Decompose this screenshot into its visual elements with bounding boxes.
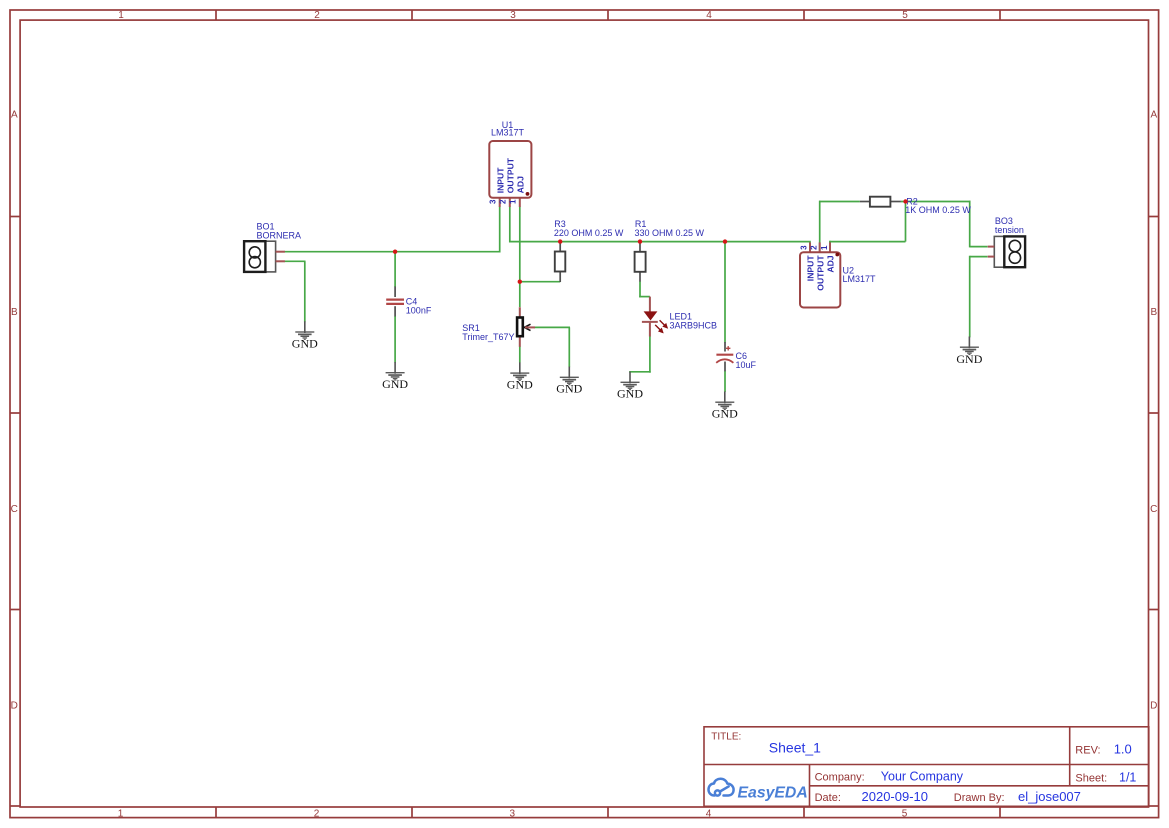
svg-text:BORNERA: BORNERA [257, 230, 302, 240]
svg-text:3ARB9HCB: 3ARB9HCB [670, 321, 718, 331]
svg-text:C: C [1150, 504, 1157, 515]
svg-text:2: 2 [498, 199, 507, 204]
svg-text:tension: tension [995, 225, 1024, 235]
svg-text:220 OHM 0.25 W: 220 OHM 0.25 W [554, 228, 624, 238]
svg-text:GND: GND [556, 382, 582, 396]
svg-text:Company:: Company: [815, 772, 865, 784]
svg-text:D: D [11, 701, 18, 712]
svg-text:LM317T: LM317T [491, 128, 525, 138]
svg-text:ADJ: ADJ [826, 255, 836, 272]
svg-text:1/1: 1/1 [1119, 771, 1136, 785]
svg-text:2: 2 [314, 10, 320, 21]
svg-text:B: B [1150, 307, 1157, 318]
svg-text:3: 3 [510, 10, 516, 21]
svg-text:3: 3 [488, 199, 497, 204]
svg-text:1: 1 [118, 808, 124, 819]
svg-text:GND: GND [507, 378, 533, 392]
svg-text:1: 1 [509, 199, 518, 204]
svg-text:el_jose007: el_jose007 [1018, 789, 1081, 804]
svg-text:GND: GND [956, 352, 982, 366]
svg-text:ADJ: ADJ [516, 176, 526, 193]
svg-text:2: 2 [314, 808, 320, 819]
svg-text:Sheet_1: Sheet_1 [769, 740, 821, 756]
svg-text:INPUT: INPUT [806, 255, 816, 282]
svg-text:D: D [1150, 701, 1157, 712]
svg-text:3: 3 [510, 808, 516, 819]
svg-text:GND: GND [617, 387, 643, 401]
svg-text:Sheet:: Sheet: [1075, 773, 1107, 785]
svg-text:1: 1 [820, 245, 829, 250]
svg-text:5: 5 [902, 808, 908, 819]
svg-text:4: 4 [706, 808, 712, 819]
svg-text:4: 4 [706, 10, 712, 21]
svg-text:1.0: 1.0 [1114, 742, 1132, 757]
svg-text:INPUT: INPUT [496, 167, 506, 194]
svg-text:3: 3 [799, 245, 808, 250]
svg-text:TITLE:: TITLE: [711, 732, 741, 743]
svg-text:A: A [11, 110, 18, 121]
svg-text:EasyEDA: EasyEDA [738, 785, 808, 802]
svg-text:1K OHM 0.25 W: 1K OHM 0.25 W [905, 205, 971, 215]
svg-text:Your Company: Your Company [881, 770, 964, 784]
svg-text:5: 5 [902, 10, 908, 21]
svg-text:100nF: 100nF [406, 305, 432, 315]
svg-text:REV:: REV: [1075, 745, 1100, 757]
svg-text:330 OHM 0.25 W: 330 OHM 0.25 W [635, 228, 705, 238]
svg-text:LM317T: LM317T [843, 274, 877, 284]
svg-text:OUTPUT: OUTPUT [506, 157, 516, 193]
svg-text:10uF: 10uF [736, 360, 757, 370]
svg-text:2020-09-10: 2020-09-10 [862, 789, 929, 804]
svg-text:1: 1 [118, 10, 124, 21]
svg-text:B: B [11, 307, 18, 318]
svg-text:Drawn By:: Drawn By: [954, 792, 1005, 804]
svg-text:Date:: Date: [815, 792, 841, 804]
svg-text:GND: GND [712, 407, 738, 421]
svg-text:2: 2 [810, 245, 819, 250]
svg-text:Trimer_T67Y: Trimer_T67Y [462, 332, 514, 342]
svg-text:GND: GND [292, 336, 318, 350]
svg-text:OUTPUT: OUTPUT [815, 255, 825, 291]
svg-text:GND: GND [382, 377, 408, 391]
svg-text:C: C [11, 504, 18, 515]
svg-text:A: A [1150, 110, 1157, 121]
